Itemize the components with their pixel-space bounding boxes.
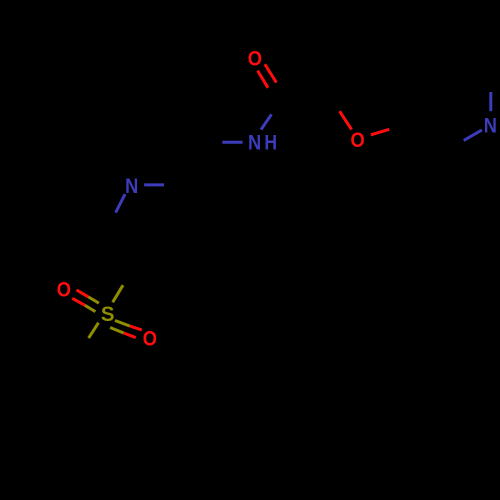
svg-text:N: N	[484, 114, 497, 138]
svg-text:N: N	[125, 175, 138, 199]
svg-text:O: O	[350, 129, 364, 153]
svg-text:H: H	[264, 131, 277, 155]
svg-text:S: S	[101, 303, 115, 327]
svg-text:O: O	[143, 327, 157, 351]
svg-text:O: O	[248, 47, 262, 71]
svg-text:N: N	[248, 131, 261, 155]
svg-text:O: O	[57, 278, 71, 302]
